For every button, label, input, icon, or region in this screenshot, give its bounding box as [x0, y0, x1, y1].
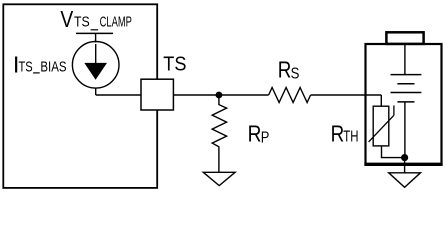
svg-text:TH: TH: [343, 129, 358, 146]
svg-text:TS: TS: [19, 59, 33, 76]
svg-text:CLAMP: CLAMP: [100, 14, 132, 31]
svg-text:TS: TS: [74, 14, 90, 31]
svg-text:R: R: [331, 120, 345, 146]
svg-text:P: P: [261, 129, 270, 146]
svg-text:R: R: [248, 121, 262, 147]
svg-text:V: V: [60, 6, 73, 32]
svg-text:R: R: [278, 56, 292, 82]
svg-text:S: S: [291, 66, 300, 83]
svg-text:TS: TS: [163, 54, 186, 76]
svg-text:BIAS: BIAS: [40, 59, 66, 76]
